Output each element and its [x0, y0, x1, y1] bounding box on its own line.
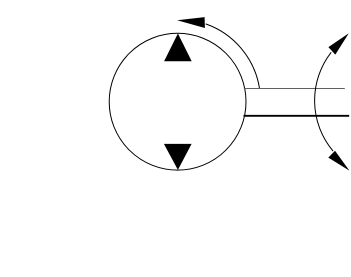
bidirectional arrowhead (bottom, pointing down-right): [328, 151, 349, 171]
flow direction triangle (bottom, pointing down/out): [164, 144, 192, 170]
pump body circle: [109, 33, 246, 170]
drive shaft lower line: [244, 115, 350, 117]
flow direction triangle (top, pointing up/out): [164, 34, 192, 62]
rotation arrow arc (counterclockwise over top of circle): [206, 24, 260, 88]
bidirectional rotation arc (crossing shaft): [315, 52, 333, 151]
bidirectional arrowhead (top, pointing up-right): [328, 33, 348, 54]
rotation arrowhead (pointing left): [177, 17, 205, 28]
drive shaft upper line: [244, 88, 345, 90]
